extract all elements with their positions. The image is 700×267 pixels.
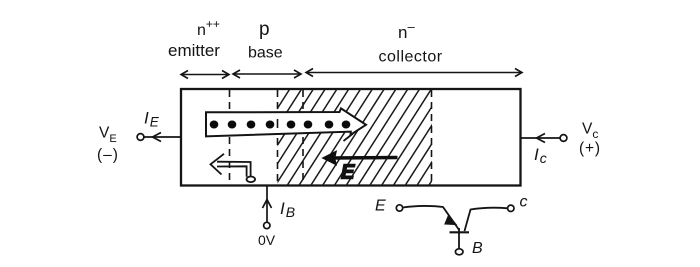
svg-text:(–): (–): [97, 147, 119, 164]
svg-text:n–: n–: [398, 19, 415, 42]
transistor emitter wire: [403, 206, 460, 231]
base terminal arrowhead: [263, 200, 272, 209]
svg-text:c: c: [520, 194, 528, 211]
base terminal wire: [266, 186, 268, 222]
transistor base bar: [450, 231, 470, 233]
arrowhead overshoot stroke: [344, 134, 354, 142]
svg-text:VE: VE: [99, 125, 117, 146]
svg-text:p: p: [259, 19, 270, 40]
svg-text:Ic: Ic: [534, 145, 547, 166]
junction dashed line emitter-base: [229, 90, 231, 185]
transistor base circle: [455, 249, 463, 255]
collector terminal arrowhead: [537, 134, 546, 143]
dash of depletion edge over arrow: [277, 119, 279, 128]
emitter terminal wire: [144, 136, 181, 138]
base width arrow: [233, 70, 301, 78]
junction dashed line base-collector: [302, 90, 304, 185]
emitter terminal arrowhead: [153, 133, 162, 142]
emitter width arrow: [181, 71, 229, 79]
E-field arrow: [331, 156, 398, 160]
svg-text:IE: IE: [144, 109, 160, 130]
collector terminal wire: [521, 137, 560, 139]
depletion edge dashed line (right): [431, 90, 433, 185]
svg-text:Vc: Vc: [582, 121, 598, 142]
depletion edge dashed line (left): [277, 90, 279, 185]
device body rectangle: [181, 89, 521, 186]
svg-text:base: base: [248, 45, 283, 62]
depletion-region hatching: [216, 89, 490, 186]
svg-text:0V: 0V: [258, 232, 276, 248]
svg-text:E: E: [375, 198, 386, 215]
base terminal circle: [264, 222, 270, 228]
base contact circle inside body: [247, 177, 256, 183]
transistor base wire: [458, 228, 460, 249]
svg-text:IB: IB: [280, 199, 295, 220]
transistor collector circle: [508, 205, 514, 211]
svg-text:(+): (+): [579, 140, 601, 157]
transistor collector wire: [465, 208, 509, 231]
svg-text:B: B: [472, 240, 483, 257]
svg-text:E: E: [341, 162, 355, 184]
svg-text:collector: collector: [379, 49, 443, 66]
transistor emitter arrowhead: [445, 216, 456, 225]
hole flow bent hollow arrow: [217, 162, 251, 177]
svg-text:emitter: emitter: [168, 41, 220, 60]
collector width arrow: [306, 69, 522, 77]
emitter terminal circle: [137, 134, 144, 141]
electron flow hollow arrow: [206, 108, 366, 136]
svg-text:n++: n++: [197, 17, 220, 39]
electron dots: [210, 121, 351, 129]
collector terminal circle: [560, 135, 567, 142]
transistor emitter circle: [396, 205, 402, 211]
